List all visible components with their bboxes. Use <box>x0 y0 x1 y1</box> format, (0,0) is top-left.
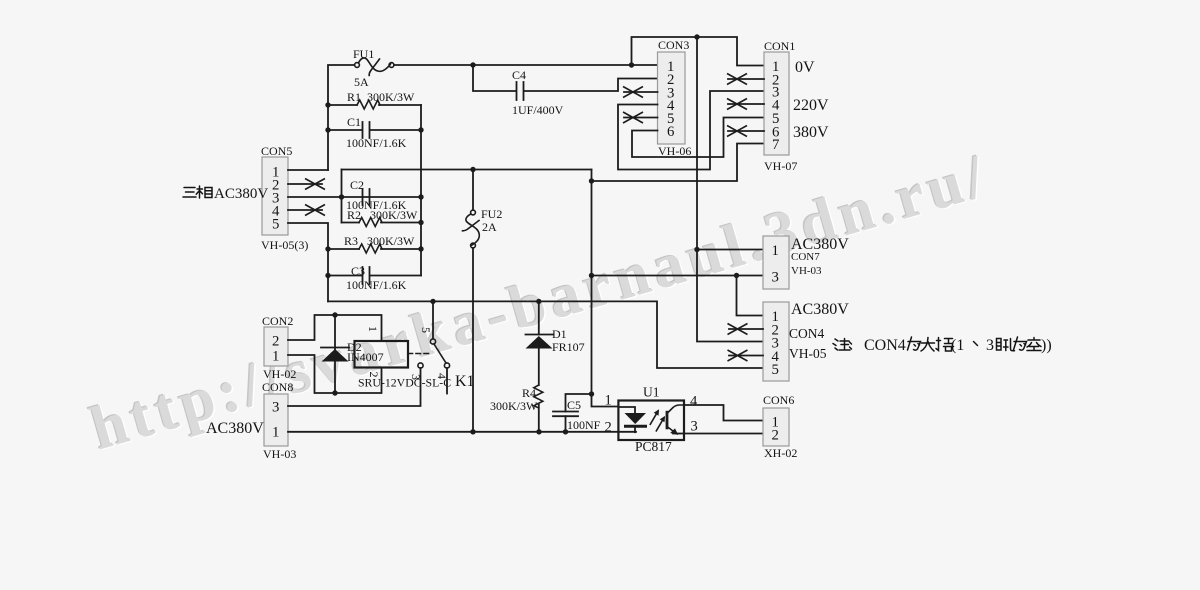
svg-text:C1: C1 <box>347 115 361 129</box>
node CON7 pin1 branch <box>694 247 699 252</box>
node C3 left <box>325 273 330 278</box>
fuse FU1 <box>355 58 394 76</box>
svg-text:1: 1 <box>272 425 279 441</box>
resistor R1 <box>328 100 421 109</box>
svg-text:5: 5 <box>272 217 279 233</box>
svg-text:VH-02: VH-02 <box>263 367 296 381</box>
capacitor C3 <box>328 267 421 284</box>
node junction CON3 pin1 riser <box>629 62 634 67</box>
svg-text:D1: D1 <box>552 327 567 341</box>
svg-text:220V: 220V <box>793 97 829 114</box>
connector CON6 <box>763 408 789 446</box>
connector CON2 <box>264 327 288 366</box>
svg-text:IN4007: IN4007 <box>347 350 384 364</box>
wire U1 pin3 to CON6 pin2 <box>684 433 763 435</box>
svg-text:R1 300K/3W: R1 300K/3W <box>347 90 415 104</box>
node R1 left <box>325 102 330 107</box>
svg-text:VH-03: VH-03 <box>791 265 822 277</box>
svg-text:R3 300K/3W: R3 300K/3W <box>344 234 415 248</box>
svg-text:XH-02: XH-02 <box>764 446 797 460</box>
capacitor C5 <box>553 394 592 432</box>
node phase B bottom junction <box>589 391 594 396</box>
connector CON1 <box>764 52 789 155</box>
switch K1 contacts <box>418 339 450 368</box>
wire phase B right link and corner down <box>591 170 593 395</box>
wire C4 left lead <box>473 65 516 91</box>
wire CON4 pin1 link <box>737 276 764 316</box>
svg-text:CON6: CON6 <box>763 393 794 407</box>
capacitor C4 <box>517 82 524 100</box>
svg-text:VH-06: VH-06 <box>658 144 691 158</box>
wire CON2 pin1 to relay coil bottom <box>288 355 382 393</box>
node C2 right <box>418 194 423 199</box>
svg-text:VH-05: VH-05 <box>789 346 827 361</box>
node R4 bottom junction <box>536 429 541 434</box>
svg-text:PC817: PC817 <box>635 439 672 454</box>
svg-text:VH-03: VH-03 <box>263 447 296 461</box>
svg-text:FU1: FU1 <box>353 47 374 61</box>
no-connect X CON3 pin3 <box>623 87 643 98</box>
svg-text:3: 3 <box>272 400 279 416</box>
node D2 top <box>332 312 337 317</box>
wire CON5 pin3 phase B <box>288 196 420 198</box>
capacitor C1 <box>328 122 421 138</box>
svg-text:100NF: 100NF <box>567 418 601 432</box>
wire CON1 pin4 stub <box>728 103 764 105</box>
resistor R2 <box>342 218 422 227</box>
svg-text:R4: R4 <box>522 386 536 400</box>
wire NO contact to CON8 pin3 <box>288 368 421 406</box>
node R3 left <box>325 246 330 251</box>
node R2 right <box>418 220 423 225</box>
capacitor C2 <box>363 189 370 205</box>
svg-text:1: 1 <box>772 243 779 259</box>
svg-text:AC380V: AC380V <box>791 301 849 318</box>
wire CON5 pin2 stub <box>288 183 322 185</box>
no-connect X CON3 pin5 <box>623 112 643 123</box>
svg-text:5: 5 <box>419 327 433 333</box>
wire CON3 pin6 to CON1 pin5 <box>632 118 764 158</box>
svg-text:K1: K1 <box>455 373 475 390</box>
svg-text:)): )) <box>1041 337 1052 354</box>
wire bottom rail CON8 pin1 <box>288 431 636 433</box>
wire CON5 pin4 stub <box>288 209 322 211</box>
wire CON3 pin3 stub <box>624 91 658 93</box>
wire FU1 output to CON3 pin1 <box>394 64 658 66</box>
wire C2R2 left bus <box>341 170 343 223</box>
wire CON4 pin4 stub <box>729 355 763 357</box>
node R3 right <box>418 246 423 251</box>
wire CON1 pin7 link <box>592 144 765 182</box>
node D1 branch <box>536 299 541 304</box>
svg-text:(1: (1 <box>951 337 964 354</box>
no-connect X CON4 pin2 <box>728 324 748 335</box>
svg-text:C2: C2 <box>350 178 364 192</box>
wire CON7 pin1 link <box>697 249 763 251</box>
watermark http://svarka-barnaul.3dn.ru/ <box>82 140 998 465</box>
wire CON5 pin1 to phase A riser <box>288 169 328 171</box>
no-connect X CON4 pin4 <box>728 350 748 361</box>
node C1 left <box>325 127 330 132</box>
wire phase C rail <box>328 301 763 368</box>
no-connect X CON1 pin4 <box>727 99 747 110</box>
svg-text:1: 1 <box>605 393 612 409</box>
diode D1 <box>526 301 554 385</box>
no-connect X CON1 pin6 <box>727 126 747 137</box>
wire CON4 pin2 stub <box>729 328 763 330</box>
connector CON3 <box>658 52 686 144</box>
node switch common branch <box>430 299 435 304</box>
wire switch common riser <box>432 301 434 338</box>
node long vertical top <box>694 34 699 39</box>
svg-text:CON2: CON2 <box>262 314 293 328</box>
node D2 bottom <box>332 390 337 395</box>
node C1 right <box>418 127 423 132</box>
connector CON5 <box>262 157 288 235</box>
resistor R4 <box>534 385 543 432</box>
svg-text:CON7: CON7 <box>791 251 820 263</box>
svg-text:100NF/1.6K: 100NF/1.6K <box>346 136 407 150</box>
svg-text:0V: 0V <box>795 59 815 76</box>
svg-text:2A: 2A <box>482 220 497 234</box>
svg-text:FU2: FU2 <box>481 207 502 221</box>
svg-text:5: 5 <box>772 362 779 378</box>
svg-text:3: 3 <box>986 337 994 354</box>
svg-text:C3: C3 <box>351 264 365 278</box>
diode D2 <box>321 315 349 393</box>
wire FU1 rail phase A top <box>328 65 355 170</box>
svg-text:C4: C4 <box>512 68 526 82</box>
wire CON7 pin3 link <box>592 275 764 277</box>
node FU2 bottom junction <box>470 429 475 434</box>
wire C4 right to CON3 pin2 <box>525 79 658 92</box>
svg-text:6: 6 <box>667 124 674 140</box>
no-connect X CON1 pin2 <box>727 74 747 85</box>
no-connect X CON5 pin2 <box>305 179 325 190</box>
svg-text:CON8: CON8 <box>262 380 293 394</box>
node CON4 pin1 branch <box>734 273 739 278</box>
wire U1 pin4 to CON6 pin1 <box>684 405 763 421</box>
wire CON2 pin2 to relay coil top <box>288 315 382 341</box>
wire RC right bus vertical <box>420 105 422 276</box>
optocoupler U1 <box>618 401 684 441</box>
svg-text:5A: 5A <box>354 75 369 89</box>
wire CON1 pin6 stub <box>728 130 764 132</box>
svg-text:2: 2 <box>772 428 779 444</box>
node junction FU1-C4 <box>470 62 475 67</box>
dashed actuator link <box>408 353 429 355</box>
wire phase B top link <box>342 169 592 171</box>
wire long vertical to CON4 pin3 <box>697 37 763 342</box>
svg-text:VH-05(3): VH-05(3) <box>261 238 308 252</box>
svg-text:CON3: CON3 <box>658 38 689 52</box>
svg-text:VH-07: VH-07 <box>764 159 797 173</box>
svg-text:2: 2 <box>605 420 612 436</box>
svg-text:C5: C5 <box>567 398 581 412</box>
node C2 left junction <box>339 194 344 199</box>
svg-text:CON5: CON5 <box>261 144 292 158</box>
wire CON3 pin1 over-the-top to CON1 pin1 <box>632 37 765 66</box>
fuse FU2 <box>463 170 480 433</box>
svg-text:CON1: CON1 <box>764 39 795 53</box>
svg-text:FR107: FR107 <box>552 340 585 354</box>
svg-text:1UF/400V: 1UF/400V <box>512 103 564 117</box>
no-connect X CON5 pin4 <box>305 205 325 216</box>
svg-text:300K/3W: 300K/3W <box>490 399 538 413</box>
node FU2 top junction <box>470 167 475 172</box>
connector CON4 <box>763 302 789 381</box>
svg-text:AC380V: AC380V <box>206 420 264 437</box>
svg-text:3: 3 <box>772 270 779 286</box>
svg-text:100NF/1.6K: 100NF/1.6K <box>346 278 407 292</box>
svg-text:AC380V: AC380V <box>214 186 268 202</box>
svg-text:R2 300K/3W: R2 300K/3W <box>347 208 418 222</box>
svg-text:U1: U1 <box>643 385 660 400</box>
svg-text:SRU-12VDC-SL-C: SRU-12VDC-SL-C <box>358 376 451 390</box>
svg-text:2: 2 <box>272 334 279 350</box>
svg-text:CON4: CON4 <box>789 326 825 341</box>
wire U1 pin1 jog <box>592 394 619 407</box>
svg-text:4: 4 <box>690 394 698 410</box>
note CON4 annotation <box>833 337 1052 354</box>
label 三相AC380V <box>183 186 268 202</box>
wire CON1 pin2 stub <box>728 78 764 80</box>
node CON1 pin7 branch <box>589 178 594 183</box>
node C5 bottom junction <box>563 429 568 434</box>
svg-text:1: 1 <box>272 349 279 365</box>
svg-text:3: 3 <box>691 419 698 435</box>
relay K1 coil box <box>355 341 409 368</box>
connector CON8 <box>264 394 288 446</box>
svg-text:7: 7 <box>772 137 779 153</box>
wire NC contact stub <box>446 368 448 394</box>
svg-text:1: 1 <box>366 326 380 332</box>
svg-text:380V: 380V <box>793 124 829 141</box>
connector CON7 <box>763 236 789 289</box>
wire CON5 pin5 phase C <box>288 223 328 301</box>
node CON7 pin3 branch <box>589 273 594 278</box>
resistor R3 <box>328 244 421 253</box>
svg-text:CON4: CON4 <box>864 337 906 354</box>
wire CON3 pin4 to CON1 pin3 <box>618 91 764 170</box>
wire CON3 pin5 stub <box>624 117 658 119</box>
